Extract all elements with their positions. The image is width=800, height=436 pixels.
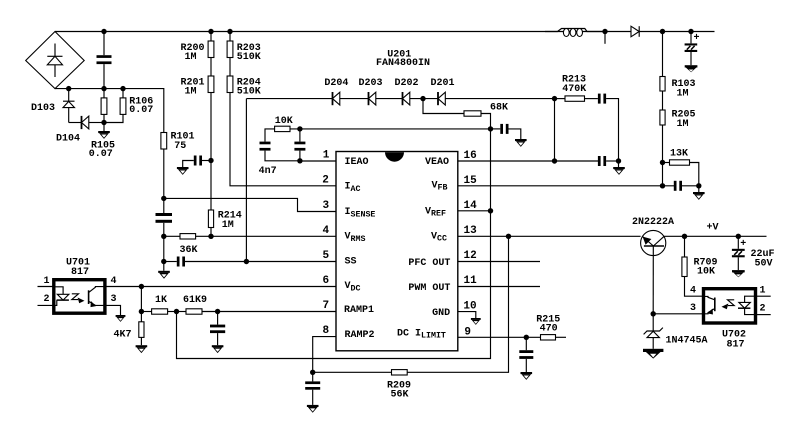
capacitor on RAMP1 — [210, 312, 225, 346]
svg-text:817: 817 — [727, 340, 745, 351]
resistor R201 — [181, 76, 214, 161]
wire 10K right to 68K node — [290, 128, 491, 130]
capacitor at pin 9 — [519, 337, 533, 372]
svg-text:470K: 470K — [562, 84, 586, 95]
junction top rail after inductor — [602, 29, 607, 34]
svg-text:36K: 36K — [180, 245, 198, 256]
resistor 36K — [164, 234, 198, 256]
junction pin 9 cap — [524, 335, 529, 340]
resistor R209 — [313, 370, 411, 401]
capacitor at 68K node to ground — [491, 124, 521, 139]
svg-text:13K: 13K — [670, 149, 688, 160]
resistor 4K7 — [114, 312, 145, 346]
svg-text:2N2222A: 2N2222A — [632, 217, 674, 228]
ground under R105 — [98, 123, 110, 139]
svg-text:GND: GND — [432, 308, 450, 319]
svg-text:16: 16 — [464, 150, 477, 162]
wire pin 13 VCC to transistor — [458, 235, 641, 237]
svg-text:0.07: 0.07 — [89, 149, 113, 160]
ground left of R201 cap — [177, 167, 189, 175]
bulk capacitor at top right — [685, 32, 700, 66]
svg-text:75: 75 — [174, 141, 186, 152]
svg-text:1M: 1M — [677, 119, 689, 130]
resistor 68K — [423, 99, 508, 129]
resistor R205 — [660, 110, 696, 186]
capacitor on R201 line to ground — [183, 156, 211, 168]
transistor Q 2N2222A — [632, 217, 674, 314]
resistor R204 — [227, 76, 261, 97]
svg-text:1M: 1M — [222, 220, 234, 231]
wire R213 node down to VEAO — [554, 99, 556, 161]
svg-text:4: 4 — [323, 225, 330, 237]
ground at VEAO network — [613, 161, 625, 175]
wire pin 12 PFC OUT — [458, 261, 540, 263]
svg-text:56K: 56K — [391, 389, 409, 400]
svg-text:IEAO: IEAO — [345, 157, 369, 168]
capacitor on SS — [164, 257, 247, 267]
junction VREF stub — [488, 208, 493, 213]
svg-text:1N4745A: 1N4745A — [666, 336, 708, 347]
resistor R213 — [555, 75, 587, 102]
resistor 13K — [663, 149, 699, 186]
ground under SS node — [158, 262, 170, 279]
wire D202-D201 — [410, 98, 438, 100]
svg-text:470: 470 — [540, 324, 558, 335]
junction VFB/R205 — [660, 183, 665, 188]
svg-text:510K: 510K — [237, 86, 261, 97]
junction at 22uF — [736, 234, 741, 239]
ground under pin 9 cap — [521, 372, 533, 380]
junction R101/ISENSE — [161, 196, 166, 201]
svg-text:4K7: 4K7 — [114, 330, 132, 341]
wire U702 pin 2 stub — [756, 314, 771, 316]
capacitor 4n7 left — [259, 129, 300, 177]
svg-text:7: 7 — [323, 300, 330, 312]
wire diode string row — [246, 98, 332, 100]
svg-text:10: 10 — [463, 301, 476, 313]
wire R201 to R214 — [210, 161, 212, 211]
capacitor on VFB wire — [674, 181, 682, 191]
wire pin 14 stub — [458, 210, 491, 212]
op-amp/controller IC U201 FAN4800IN body — [336, 50, 458, 351]
wire top rail — [55, 31, 715, 33]
resistor R215 — [536, 314, 566, 340]
svg-text:RAMP1: RAMP1 — [344, 305, 374, 316]
diode on top rail — [631, 26, 639, 37]
wire to pin 1 — [300, 160, 336, 162]
junction RAMP1 cap — [215, 309, 220, 314]
junction pin1 node — [297, 158, 302, 163]
stub below inductor node — [604, 32, 606, 44]
svg-text:RAMP2: RAMP2 — [345, 330, 375, 341]
junction 36K node — [161, 234, 166, 239]
svg-text:1M: 1M — [677, 89, 689, 100]
wire pin 7 RAMP1 — [202, 311, 336, 313]
svg-text:1: 1 — [760, 285, 766, 296]
resistor R103 — [660, 32, 696, 111]
svg-text:8: 8 — [323, 325, 330, 337]
svg-text:11: 11 — [464, 275, 478, 287]
resistor R709 — [682, 236, 718, 296]
junction top rail at bulk cap — [688, 29, 693, 34]
junction lower rail at R105 — [101, 86, 106, 91]
junction R201/cap — [208, 158, 213, 163]
wire D204-D203 — [340, 98, 369, 100]
svg-text:4: 4 — [690, 285, 696, 296]
inductor L — [545, 29, 605, 37]
svg-text:1: 1 — [44, 276, 50, 287]
junction VDC/1K node — [139, 284, 144, 289]
svg-text:+: + — [740, 239, 746, 250]
wire diode-string feed down to SS node — [245, 99, 247, 262]
svg-text:D202: D202 — [395, 78, 419, 89]
wire pin 11 PWM OUT — [458, 286, 540, 288]
svg-text:10K: 10K — [697, 267, 715, 278]
junction top rail at R103 — [660, 29, 665, 34]
svg-text:SS: SS — [345, 256, 357, 267]
svg-text:VEAO: VEAO — [425, 157, 449, 168]
wire pin 9 DC ILIMIT — [458, 336, 541, 338]
svg-text:D203: D203 — [359, 78, 383, 89]
svg-text:D204: D204 — [324, 78, 348, 89]
svg-text:1M: 1M — [185, 86, 197, 97]
junction R205/13K — [660, 160, 665, 165]
ground under 22uF — [732, 270, 745, 277]
zener 1N4745A — [644, 314, 708, 349]
svg-text:13: 13 — [464, 225, 478, 237]
junction 1K/4K7 — [139, 309, 144, 314]
svg-text:5: 5 — [323, 250, 330, 262]
svg-text:510K: 510K — [237, 52, 261, 63]
junction top rail at C101 — [101, 29, 106, 34]
junction R214/pin4 wire — [208, 234, 213, 239]
ground under 4K7 — [136, 345, 148, 353]
optocoupler U702 — [704, 289, 756, 351]
svg-text:3: 3 — [690, 303, 696, 314]
wire pin 3 ISENSE step — [164, 198, 336, 211]
resistor R101 — [161, 132, 195, 199]
diode D202 — [395, 78, 419, 105]
svg-text:12: 12 — [464, 250, 477, 262]
svg-text:1M: 1M — [185, 52, 197, 63]
svg-text:2: 2 — [322, 174, 329, 186]
junction VEAO cap/ground — [616, 158, 621, 163]
svg-text:PFC OUT: PFC OUT — [408, 258, 450, 269]
capacitor on VEAO wire — [598, 156, 606, 166]
wire U702 pin 3 to zener node — [653, 313, 703, 315]
junction R213/D201 node — [552, 96, 557, 101]
svg-text:6: 6 — [323, 275, 330, 287]
junction 1K/61K9 — [174, 309, 179, 314]
capacitor 4n7 right — [294, 129, 305, 161]
svg-text:1K: 1K — [155, 295, 167, 306]
svg-text:D104: D104 — [56, 134, 80, 145]
wire U701 pin 1 stub — [38, 286, 54, 288]
svg-text:1: 1 — [323, 149, 330, 161]
junction lower rail at D103 — [66, 86, 71, 91]
svg-text:61K9: 61K9 — [183, 295, 207, 306]
svg-text:4: 4 — [111, 276, 117, 287]
wire R204 to pin 2 — [230, 93, 336, 186]
svg-text:4n7: 4n7 — [259, 166, 277, 177]
capacitor across bridge — [97, 32, 112, 89]
wire 36K node down to SS cap — [163, 236, 165, 261]
wire VREF vertical run to 1K/61K9 node — [177, 129, 491, 359]
resistor R106 — [104, 89, 153, 123]
resistor R214 — [208, 210, 241, 236]
resistor R203 — [227, 32, 261, 77]
ground at VFB network — [693, 186, 705, 200]
wire transistor collector to +V — [664, 235, 766, 237]
junction diode string / 68K tap — [420, 96, 425, 101]
resistor R200 — [181, 32, 214, 77]
diode D204 — [324, 78, 348, 105]
svg-text:68K: 68K — [490, 103, 508, 114]
ground under bulk capacitor — [685, 65, 698, 72]
junction SS/diode-string feed — [244, 259, 249, 264]
ground under RAMP2 cap — [307, 405, 319, 413]
ground at pin 10 — [471, 318, 481, 325]
wire U701 pin 2 stub — [38, 304, 54, 306]
svg-text:PWM OUT: PWM OUT — [408, 283, 450, 294]
wire pin 10 GND — [458, 312, 476, 318]
wire D201 to R213 node — [445, 98, 554, 100]
svg-text:2: 2 — [44, 294, 50, 305]
svg-text:D103: D103 — [31, 103, 55, 114]
capacitor 22uF 50V — [732, 236, 775, 270]
svg-text:+: + — [694, 33, 700, 44]
svg-text:3: 3 — [323, 200, 330, 212]
resistor R105 — [89, 89, 115, 161]
wire pin 5 SS — [246, 261, 336, 263]
junction 68K / 10K wire — [488, 126, 493, 131]
junction D104/R105 — [101, 120, 106, 125]
capacitor after R213 — [585, 94, 619, 161]
wire pin 4 VRMS — [196, 235, 336, 237]
wire pin 6 VDC — [105, 286, 336, 288]
ground at U701 pin 3 — [116, 315, 126, 322]
wire U702 pin 1 stub — [756, 295, 771, 297]
junction VCC/R209 line — [506, 234, 511, 239]
svg-text:817: 817 — [71, 267, 89, 278]
diode D201 — [431, 78, 455, 105]
junction 10K/right cap top — [297, 126, 302, 131]
junction top rail at R200 — [208, 29, 213, 34]
resistor 61K9 — [177, 295, 208, 314]
svg-text:2: 2 — [760, 303, 766, 314]
wire pin 15 VFB — [458, 185, 674, 187]
svg-text:14: 14 — [464, 200, 478, 212]
wire D203-D202 — [376, 98, 403, 100]
ground under zener — [643, 349, 663, 359]
diode D104 — [56, 116, 104, 145]
svg-text:50V: 50V — [755, 259, 773, 270]
ground right of 68K cap — [515, 139, 527, 147]
resistor 1K — [141, 295, 176, 314]
wire pin 16 VEAO — [458, 160, 598, 162]
capacitor on RAMP2 — [305, 372, 320, 405]
wire VCC down to R209 — [407, 236, 508, 372]
optocoupler U701 — [54, 258, 105, 314]
svg-text:3: 3 — [111, 294, 117, 305]
svg-text:FAN4800IN: FAN4800IN — [376, 58, 430, 69]
capacitor on ISENSE chain — [156, 198, 173, 236]
wire lower rail — [55, 89, 164, 133]
wire U701 pin 3 to ground — [105, 305, 121, 315]
junction lower rail at R106 — [120, 86, 125, 91]
junction at R709 — [682, 234, 687, 239]
junction SS cap node — [161, 259, 166, 264]
bridge rectifier — [26, 32, 84, 89]
junction base/zener/U702 — [651, 311, 656, 316]
svg-text:0.07: 0.07 — [129, 105, 153, 116]
diode D203 — [359, 78, 383, 105]
svg-text:D201: D201 — [431, 78, 455, 89]
junction VEAO wire — [552, 158, 557, 163]
wire pin 8 RAMP2 — [313, 337, 336, 373]
svg-text:10K: 10K — [275, 116, 293, 127]
wire VDC node down — [140, 287, 142, 312]
junction top rail at R203 — [227, 29, 232, 34]
junction VFB cap/13K — [696, 183, 701, 188]
svg-text:9: 9 — [464, 326, 471, 338]
resistor 10K — [275, 116, 293, 131]
svg-text:+V: +V — [707, 223, 719, 234]
junction RAMP2/R209 — [310, 370, 315, 375]
svg-text:15: 15 — [464, 175, 478, 187]
diode D103 — [31, 89, 75, 123]
ground under RAMP1 cap — [212, 345, 224, 353]
